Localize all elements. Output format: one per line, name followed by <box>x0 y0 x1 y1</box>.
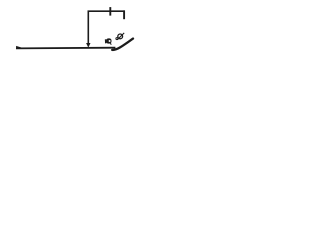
wire: right vertical stub from top wire <box>123 10 125 19</box>
current arrow (pointing left) on bottom wire <box>16 46 23 49</box>
wire: bottom horizontal conductor <box>16 47 115 50</box>
current arrow (pointing down) onto bottom wire <box>86 43 90 48</box>
wire: top horizontal conductor <box>88 10 125 12</box>
switch S blade (open, diagonal) <box>112 39 133 50</box>
wire: vertical conductor <box>87 11 89 44</box>
switch terminal (right) <box>116 33 124 40</box>
switch terminal (left) <box>106 38 112 44</box>
pin tick crossing top wire <box>109 7 111 16</box>
